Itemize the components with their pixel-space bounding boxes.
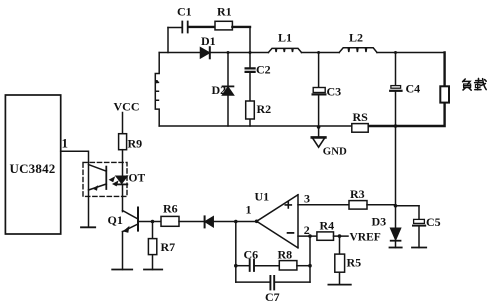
- resistor RL load: [440, 86, 449, 102]
- ground bar (D3): [390, 247, 402, 249]
- svg-text:D3: D3: [372, 215, 387, 229]
- phototransistor collector: [89, 165, 107, 172]
- wire: R9 to LED: [122, 150, 124, 176]
- wire: pin 2 row to R4: [298, 235, 317, 237]
- inductor: transformer winding (left, bumps out left): [155, 53, 159, 127]
- resistor R3: [349, 201, 367, 210]
- svg-text:R2: R2: [257, 102, 272, 116]
- wire: bottom rail left of RS: [159, 125, 352, 127]
- svg-text:R9: R9: [128, 137, 143, 151]
- resistor R9: [119, 134, 127, 150]
- svg-text:D1: D1: [201, 34, 216, 48]
- ground bar (R7): [144, 269, 162, 271]
- wire: R5 drop: [339, 236, 341, 285]
- svg-text:VREF: VREF: [350, 232, 381, 244]
- svg-text:L1: L1: [278, 31, 292, 45]
- wire: C6 row left: [236, 265, 249, 267]
- wire: Q1 emitter to ground: [122, 232, 124, 270]
- capacitor C4: [390, 86, 401, 91]
- svg-text:L2: L2: [349, 31, 363, 45]
- wire: pin 3 row to R3: [298, 204, 349, 206]
- wire: snubber branch left vertical: [167, 28, 169, 53]
- ground bar (R5): [328, 284, 350, 286]
- wire: R4 to VREF: [334, 235, 349, 237]
- svg-text:C7: C7: [265, 290, 280, 302]
- svg-text:R4: R4: [320, 219, 335, 233]
- wire: GND stub: [318, 127, 320, 137]
- wire: R6 to diode: [179, 221, 204, 223]
- op-amp U1: [257, 195, 298, 248]
- svg-text:R3: R3: [350, 187, 365, 201]
- wire: C6 to R8: [255, 265, 279, 267]
- svg-text:R5: R5: [347, 256, 362, 270]
- wire: LED to Q1 collector: [122, 184, 124, 211]
- svg-text:R7: R7: [161, 240, 176, 254]
- wire: C7 row right: [275, 281, 310, 283]
- wire: C1 to R1 (thick): [189, 26, 215, 28]
- svg-text:2: 2: [304, 223, 310, 237]
- wire: diode to op-amp apex: [213, 221, 256, 223]
- resistor RS: [352, 124, 368, 133]
- diode D1: [201, 47, 210, 58]
- svg-text:C3: C3: [327, 85, 342, 99]
- svg-text:GND: GND: [323, 145, 347, 157]
- diode D4 (series, pointing left): [205, 216, 214, 227]
- capacitor C1: [182, 22, 187, 33]
- svg-text:U1: U1: [255, 190, 270, 204]
- wire: snubber right vertical down to main line: [249, 27, 251, 53]
- svg-text:R1: R1: [217, 5, 232, 19]
- wire: R7 drop: [152, 222, 154, 270]
- svg-text:UC3842: UC3842: [10, 161, 56, 176]
- capacitor C6: [250, 260, 254, 271]
- svg-text:R6: R6: [163, 202, 178, 216]
- phototransistor emitter: [89, 184, 107, 191]
- wire: R8 to right vertical: [297, 265, 310, 267]
- label 负载 (load, drawn strokes): [463, 78, 487, 90]
- wire: C7 row left: [236, 281, 270, 283]
- svg-text:C4: C4: [406, 82, 421, 96]
- optocoupler QT dashed box: [83, 162, 127, 196]
- svg-text:C1: C1: [177, 5, 192, 19]
- ground bar (C5): [412, 247, 426, 249]
- ground GND triangle: [312, 137, 326, 147]
- light arrows: [109, 176, 119, 186]
- ground bar (opto emitter): [81, 226, 95, 228]
- LED in optocoupler: [116, 176, 128, 184]
- wire: VCC stub: [122, 113, 124, 134]
- transistor Q1 emitter: [123, 224, 139, 233]
- svg-text:1: 1: [246, 203, 252, 217]
- wire: snubber branch top left: [168, 27, 182, 29]
- inductor L1: [268, 48, 301, 52]
- svg-text:Q1: Q1: [108, 213, 123, 227]
- capacitor C7: [270, 276, 274, 289]
- wire: pin 1 to optocoupler: [61, 151, 89, 227]
- wire: C4 / sense vertical: [395, 53, 397, 206]
- wire: D2 branch vertical: [227, 53, 229, 127]
- wire: R1 to right corner (thick): [232, 26, 250, 28]
- svg-text:VCC: VCC: [114, 100, 140, 114]
- svg-text:C6: C6: [244, 248, 259, 262]
- wire: main top line: [159, 52, 444, 54]
- svg-text:1: 1: [62, 136, 69, 151]
- capacitor C3: [313, 88, 326, 95]
- resistor R1: [215, 21, 232, 30]
- capacitor C5: [413, 219, 425, 225]
- resistor R8: [279, 261, 297, 270]
- ground bar (Q1 emitter): [112, 269, 132, 271]
- resistor R7: [148, 239, 156, 255]
- op-amp plus sign: [285, 202, 291, 208]
- svg-text:R8: R8: [278, 248, 293, 262]
- wire: compensation left vertical: [235, 222, 237, 283]
- wire: Q1 base row: [139, 221, 161, 223]
- op-amp minus sign: [288, 232, 294, 234]
- svg-text:D2: D2: [212, 83, 227, 97]
- wire: load branch (thick): [368, 53, 444, 127]
- inductor L2: [339, 48, 377, 53]
- svg-text:RS: RS: [353, 110, 369, 124]
- wire: C2/R2 vertical: [249, 53, 251, 127]
- capacitor C2: [246, 68, 255, 72]
- wire: C3 vertical: [318, 53, 320, 128]
- resistor R6: [161, 216, 179, 226]
- diode D3: [391, 206, 401, 248]
- resistor R4: [317, 232, 334, 240]
- transistor Q1 base bar: [137, 208, 139, 231]
- diode D2: [223, 86, 234, 95]
- resistor R5: [335, 254, 345, 272]
- resistor R2: [246, 101, 255, 119]
- wire: compensation right vertical: [309, 236, 311, 282]
- transistor Q1 collector: [123, 211, 139, 220]
- phototransistor base bar: [105, 167, 107, 189]
- wire: C5 stub: [418, 206, 420, 248]
- IC UC3842 box: [5, 95, 60, 234]
- svg-text:C2: C2: [256, 63, 271, 77]
- svg-text:3: 3: [304, 192, 310, 206]
- svg-text:C5: C5: [426, 215, 441, 229]
- wire: R3 to sense node: [367, 205, 419, 206]
- label UC3842: [10, 161, 56, 176]
- svg-text:OT: OT: [129, 173, 146, 185]
